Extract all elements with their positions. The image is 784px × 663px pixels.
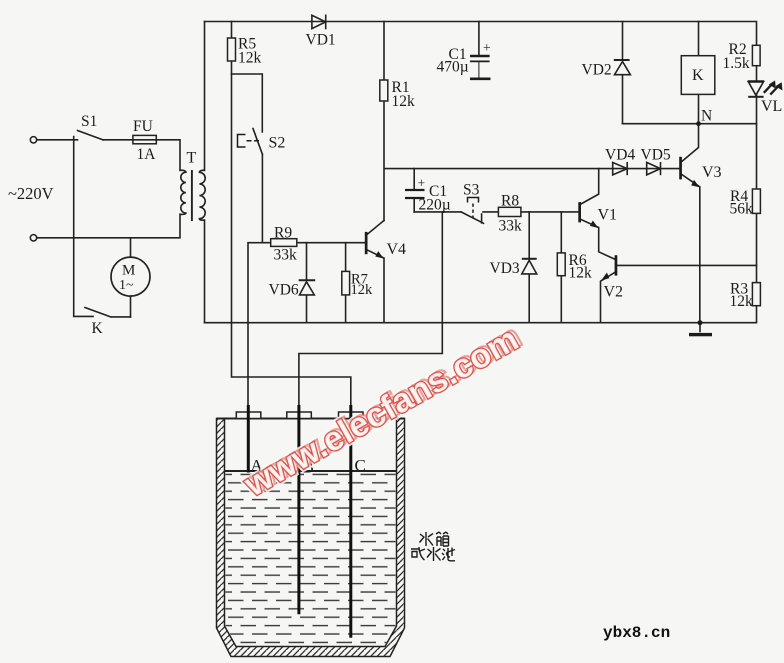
svg-text:12k: 12k: [569, 265, 593, 282]
svg-text:470µ: 470µ: [437, 59, 469, 76]
svg-text:FU: FU: [133, 118, 153, 135]
svg-text:V2: V2: [604, 284, 624, 301]
svg-text:N: N: [701, 108, 712, 125]
svg-text:VD1: VD1: [306, 32, 336, 49]
svg-text:+: +: [418, 176, 426, 191]
svg-text:12k: 12k: [351, 282, 374, 298]
svg-text:V1: V1: [598, 207, 618, 224]
svg-text:T: T: [187, 150, 197, 167]
svg-text:~220V: ~220V: [8, 184, 54, 203]
svg-text:V4: V4: [387, 241, 407, 258]
svg-text:1.5k: 1.5k: [723, 55, 750, 72]
svg-text:K: K: [92, 320, 104, 337]
svg-text:1A: 1A: [137, 146, 157, 163]
svg-text:VL: VL: [761, 98, 782, 115]
svg-text:M: M: [122, 263, 135, 279]
svg-text:ybx8.cn: ybx8.cn: [603, 624, 670, 642]
svg-text:56k: 56k: [730, 201, 754, 218]
svg-text:R8: R8: [501, 193, 519, 210]
svg-text:220µ: 220µ: [419, 197, 451, 214]
svg-text:+: +: [483, 40, 491, 55]
svg-text:C: C: [355, 456, 366, 475]
svg-text:S2: S2: [269, 135, 286, 152]
svg-text:VD4: VD4: [605, 147, 635, 164]
svg-text:K: K: [692, 67, 704, 84]
svg-text:1~: 1~: [119, 278, 134, 293]
svg-text:12k: 12k: [730, 293, 754, 310]
svg-text:R9: R9: [274, 225, 292, 242]
svg-text:V3: V3: [702, 164, 722, 181]
svg-text:S1: S1: [81, 113, 97, 130]
svg-text:VD5: VD5: [641, 147, 671, 164]
svg-text:S3: S3: [463, 182, 480, 199]
svg-text:VD2: VD2: [582, 62, 612, 79]
svg-text:12k: 12k: [238, 50, 262, 67]
svg-text:33k: 33k: [499, 218, 523, 235]
svg-text:VD3: VD3: [490, 260, 520, 277]
svg-text:12k: 12k: [392, 93, 416, 110]
svg-text:33k: 33k: [274, 247, 298, 264]
svg-text:VD6: VD6: [269, 282, 299, 299]
